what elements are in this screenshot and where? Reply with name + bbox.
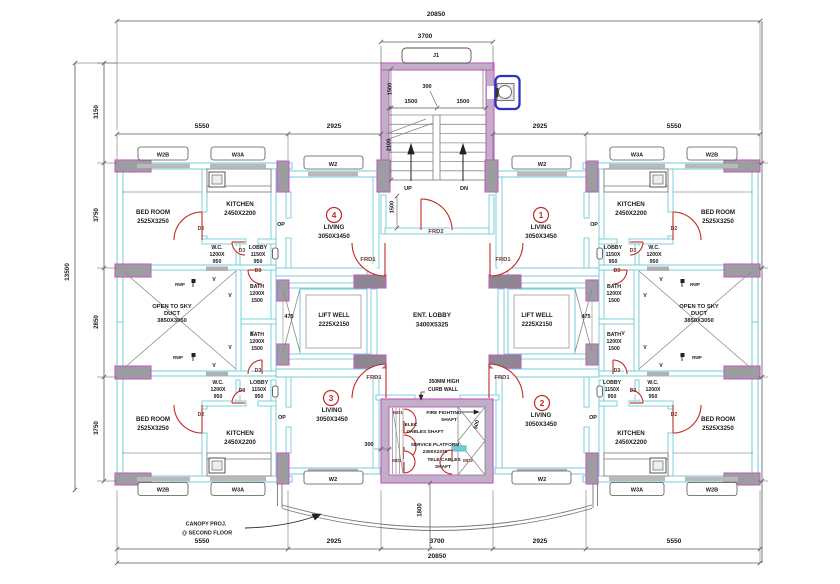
svg-text:475: 475 [284,314,293,320]
svg-text:LIVING: LIVING [322,407,343,414]
svg-text:475: 475 [581,314,590,320]
svg-text:2225X2150: 2225X2150 [522,322,553,328]
svg-text:950: 950 [213,259,222,265]
svg-text:W.C.: W.C. [212,380,224,386]
svg-text:3750: 3750 [93,421,100,435]
svg-text:BED ROOM: BED ROOM [136,416,170,423]
svg-text:BED ROOM: BED ROOM [701,209,735,216]
svg-text:FIRE FIGHTING: FIRE FIGHTING [426,410,461,416]
svg-text:20850: 20850 [428,553,447,560]
svg-text:W2B: W2B [157,488,169,494]
svg-text:1200X: 1200X [646,252,662,258]
svg-text:LOBBY: LOBBY [249,245,268,251]
svg-text:4: 4 [332,210,337,220]
svg-text:RWP: RWP [690,282,700,287]
svg-text:W3A: W3A [631,488,643,494]
svg-text:W.C.: W.C. [648,245,660,251]
svg-text:3400X5325: 3400X5325 [416,322,449,329]
svg-text:MD1: MD1 [392,458,402,463]
svg-text:D3: D3 [614,368,621,374]
svg-text:D3: D3 [614,268,621,274]
svg-text:1200X: 1200X [645,387,661,393]
svg-text:1800: 1800 [418,503,424,517]
svg-text:2525X3250: 2525X3250 [137,218,169,225]
svg-text:ENT. LOBBY: ENT. LOBBY [413,312,452,319]
svg-text:FRD1: FRD1 [495,257,511,263]
svg-text:FRD1: FRD1 [360,257,376,263]
svg-text:950: 950 [255,394,264,400]
svg-text:MD2: MD2 [463,458,473,463]
svg-text:SERVICE PLATFORM: SERVICE PLATFORM [411,442,460,448]
svg-text:D2: D2 [198,226,205,232]
svg-text:1500: 1500 [251,298,263,304]
svg-text:KITCHEN: KITCHEN [226,201,254,208]
svg-text:ELEC: ELEC [405,422,418,428]
svg-text:OP: OP [277,222,285,228]
svg-text:5550: 5550 [667,538,682,545]
svg-text:UP: UP [404,186,412,192]
svg-text:3: 3 [329,393,334,403]
svg-text:1200X: 1200X [249,339,265,345]
svg-text:3050X3450: 3050X3450 [525,421,557,428]
svg-text:2850: 2850 [93,315,100,329]
svg-text:D2: D2 [671,226,678,232]
svg-text:2450X2200: 2450X2200 [224,439,256,446]
svg-text:LOBBY: LOBBY [603,380,622,386]
svg-text:2525X3250: 2525X3250 [702,425,734,432]
svg-text:2350X2370: 2350X2370 [423,449,448,455]
svg-text:3700: 3700 [430,538,445,545]
svg-text:2525X3250: 2525X3250 [702,218,734,225]
svg-text:SHAFT: SHAFT [435,464,451,470]
svg-text:D3: D3 [255,368,262,374]
svg-text:W2: W2 [329,162,337,168]
svg-text:2925: 2925 [533,538,548,545]
svg-text:1500: 1500 [457,99,470,105]
svg-text:J1: J1 [433,53,439,59]
svg-text:CANOPY PROJ.: CANOPY PROJ. [186,522,227,528]
svg-text:OPEN TO SKY: OPEN TO SKY [152,304,192,310]
svg-text:FRD2: FRD2 [428,229,443,235]
svg-text:D3: D3 [630,248,637,254]
svg-text:3750: 3750 [93,208,100,222]
svg-text:TELE CABLES: TELE CABLES [427,457,461,463]
svg-text:2225X2150: 2225X2150 [319,322,350,328]
svg-text:950: 950 [649,394,658,400]
svg-text:1: 1 [539,210,544,220]
svg-text:LIFT WELL: LIFT WELL [318,313,350,319]
svg-text:FRD1: FRD1 [366,375,382,381]
svg-text:1500: 1500 [390,201,396,213]
svg-text:CURB WALL: CURB WALL [428,387,458,393]
svg-text:BATH: BATH [250,284,264,290]
svg-text:2925: 2925 [327,123,342,130]
svg-text:@ SECOND FLOOR: @ SECOND FLOOR [182,531,232,537]
svg-text:2925: 2925 [533,123,548,130]
svg-text:MD1: MD1 [393,410,403,415]
svg-text:950: 950 [608,394,617,400]
svg-text:LIVING: LIVING [531,224,552,231]
svg-text:3850X3050: 3850X3050 [684,318,714,324]
svg-text:D3: D3 [255,268,262,274]
svg-text:1200X: 1200X [606,339,622,345]
svg-text:2450X2200: 2450X2200 [615,439,647,446]
svg-text:950: 950 [609,259,618,265]
svg-text:OP: OP [589,415,597,421]
svg-text:13500: 13500 [64,263,71,281]
svg-text:BATH: BATH [607,332,621,338]
svg-text:2525X3250: 2525X3250 [137,425,169,432]
svg-text:W3A: W3A [232,153,244,159]
svg-text:CABLES SHAFT: CABLES SHAFT [406,429,443,435]
svg-text:3050X3450: 3050X3450 [316,416,348,423]
svg-text:BED ROOM: BED ROOM [701,416,735,423]
svg-text:W2: W2 [329,477,337,483]
svg-text:3850X3050: 3850X3050 [157,318,187,324]
svg-text:OP: OP [590,222,598,228]
svg-text:D3: D3 [239,248,246,254]
svg-text:LOBBY: LOBBY [250,380,269,386]
svg-text:LIFT WELL: LIFT WELL [521,313,553,319]
svg-text:5550: 5550 [195,123,210,130]
svg-text:W2: W2 [538,477,546,483]
svg-text:RWP: RWP [692,355,702,360]
svg-text:RWP: RWP [173,355,183,360]
svg-text:950: 950 [214,394,223,400]
svg-text:LIVING: LIVING [324,224,345,231]
svg-text:1150X: 1150X [606,252,621,258]
svg-text:1200X: 1200X [209,252,225,258]
svg-text:BATH: BATH [607,284,621,290]
svg-text:2925: 2925 [327,538,342,545]
svg-text:20850: 20850 [427,11,446,18]
svg-text:5550: 5550 [667,123,682,130]
svg-text:KITCHEN: KITCHEN [617,430,645,437]
svg-text:3050X3450: 3050X3450 [318,233,350,240]
svg-text:OP: OP [278,415,286,421]
svg-text:DUCT: DUCT [164,311,181,317]
svg-text:1150X: 1150X [251,252,266,258]
svg-text:300: 300 [364,442,373,448]
svg-text:3700: 3700 [418,33,433,40]
svg-text:1500: 1500 [388,83,394,95]
svg-text:1200X: 1200X [606,291,622,297]
svg-text:2450X2200: 2450X2200 [615,210,647,217]
svg-text:W2B: W2B [706,153,718,159]
svg-text:W.C.: W.C. [211,245,223,251]
svg-text:LOBBY: LOBBY [604,245,623,251]
svg-text:350MM HIGH: 350MM HIGH [429,379,460,385]
svg-text:SHAFT: SHAFT [441,417,457,423]
svg-text:W3A: W3A [232,488,244,494]
svg-text:950: 950 [650,259,659,265]
svg-text:DN: DN [460,186,468,192]
svg-text:D2: D2 [671,412,678,418]
svg-text:950: 950 [254,259,263,265]
svg-text:LIVING: LIVING [531,412,552,419]
svg-text:D3: D3 [239,388,246,394]
svg-text:2100: 2100 [387,139,393,151]
svg-text:KITCHEN: KITCHEN [226,430,254,437]
svg-text:1500: 1500 [608,298,620,304]
svg-text:300: 300 [422,84,431,90]
svg-text:FRD1: FRD1 [494,375,510,381]
svg-text:KITCHEN: KITCHEN [617,201,645,208]
svg-text:5550: 5550 [195,538,210,545]
svg-text:3050X3450: 3050X3450 [525,233,557,240]
svg-text:W2B: W2B [157,153,169,159]
svg-text:1150X: 1150X [252,387,267,393]
svg-text:3150: 3150 [93,105,100,119]
svg-text:1500: 1500 [608,346,620,352]
svg-text:1150X: 1150X [605,387,620,393]
svg-text:W2: W2 [538,162,546,168]
svg-text:RWP: RWP [175,282,185,287]
svg-text:1500: 1500 [405,99,418,105]
svg-text:W3A: W3A [631,153,643,159]
svg-text:1500: 1500 [251,346,263,352]
svg-text:D3: D3 [630,388,637,394]
svg-text:W2B: W2B [706,488,718,494]
svg-text:DUCT: DUCT [691,311,708,317]
svg-text:BED ROOM: BED ROOM [136,209,170,216]
svg-text:1200X: 1200X [210,387,226,393]
svg-text:W.C.: W.C. [647,380,659,386]
svg-text:2: 2 [540,398,545,408]
svg-text:D2: D2 [198,412,205,418]
svg-text:OPEN TO SKY: OPEN TO SKY [679,304,719,310]
svg-text:2450X2200: 2450X2200 [224,210,256,217]
svg-text:1200X: 1200X [249,291,265,297]
